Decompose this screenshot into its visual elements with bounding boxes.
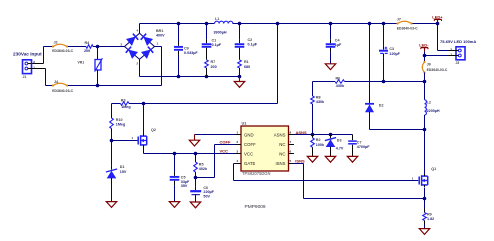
svg-text:400V: 400V (156, 34, 165, 38)
resistor R5 402k (194, 154, 208, 178)
resistor R2 100k (311, 135, 325, 157)
svg-text:R7: R7 (211, 60, 216, 64)
ground below R1 (234, 77, 244, 88)
svg-text:200: 200 (84, 49, 90, 53)
transistor Q2 (132, 104, 156, 154)
svg-text:1Meg: 1Meg (116, 123, 125, 127)
capacitor C3 120µF (379, 24, 401, 82)
resistor R8 430k (311, 82, 325, 135)
svg-text:J9: J9 (427, 62, 431, 66)
svg-text:R8: R8 (316, 95, 321, 99)
svg-text:D1: D1 (120, 165, 125, 169)
resistor R4 200 (84, 41, 93, 53)
ground below C5 (169, 202, 179, 208)
ground below C4 (325, 64, 335, 70)
ground below R9 (419, 229, 429, 235)
svg-text:PMP9009: PMP9009 (245, 204, 266, 210)
svg-text:2200µH: 2200µH (427, 109, 440, 113)
svg-text:J2: J2 (54, 40, 58, 44)
svg-text:ISNS: ISNS (275, 161, 285, 166)
svg-text:L1: L1 (215, 17, 219, 21)
wire ISNS net from pin 5 (294, 164, 425, 199)
svg-text:R2: R2 (316, 138, 321, 142)
wire bridge bottom riser and DC- rail (140, 59, 242, 78)
svg-text:3900µH: 3900µH (214, 30, 227, 34)
svg-text:C6: C6 (203, 186, 208, 190)
svg-text:35V: 35V (181, 184, 188, 188)
capacitor C7 4700pF (348, 135, 370, 157)
svg-text:LED-: LED- (419, 43, 429, 48)
wire ASNS net from pin 8 (294, 133, 353, 137)
label 75-65V LED 100mA (440, 39, 476, 44)
wire GATE net to Q1 gate (234, 164, 419, 181)
power symbol LED- (419, 43, 429, 52)
power symbol LED+ (432, 14, 443, 25)
net label VCC (220, 149, 229, 154)
svg-text:C5: C5 (181, 175, 186, 179)
svg-text:75-65V LED 100mA: 75-65V LED 100mA (440, 39, 476, 44)
wire VCC rail (144, 152, 242, 156)
svg-text:ED3640-03-C: ED3640-03-C (52, 49, 73, 53)
svg-text:ISNS: ISNS (295, 159, 305, 164)
svg-text:ASNS: ASNS (296, 130, 307, 135)
svg-text:50V: 50V (203, 195, 210, 199)
wire bottom input rail (46, 84, 162, 88)
diode D2 (365, 24, 384, 130)
ground below C6 (190, 202, 200, 208)
wire J9 to sense rail (424, 73, 426, 82)
net label ASNS (296, 130, 307, 135)
net label ISNS (295, 159, 305, 164)
svg-text:NC: NC (279, 151, 285, 156)
svg-text:430k: 430k (316, 100, 325, 104)
node Q2 base (110, 139, 138, 143)
connector J1 (230Vac input) (23, 60, 36, 79)
svg-text:COFF: COFF (220, 140, 231, 145)
svg-text:J7: J7 (397, 17, 401, 21)
svg-text:R1: R1 (244, 60, 249, 64)
capacitor C9 0.033µF (174, 24, 198, 77)
svg-text:4.7V: 4.7V (336, 147, 344, 151)
inductor L1 3900µH (214, 17, 233, 34)
svg-text:ASNS: ASNS (274, 132, 286, 137)
svg-text:100k: 100k (316, 143, 325, 147)
svg-text:33µF: 33µF (181, 180, 190, 184)
svg-text:15V: 15V (120, 170, 127, 174)
resistor R10 1Meg (110, 104, 126, 141)
label 230Vac Input (13, 52, 42, 57)
inductor L2 2200µH (425, 82, 440, 130)
svg-text:U1: U1 (242, 121, 248, 126)
svg-text:J1: J1 (23, 75, 27, 79)
node VR1 top junction (96, 45, 100, 49)
net label COFF (220, 140, 231, 145)
svg-text:230Vac Input: 230Vac Input (13, 52, 42, 57)
svg-text:0.1µF: 0.1µF (248, 42, 258, 46)
wire ASNS sense rail (313, 80, 427, 84)
label PMP9009 (245, 204, 266, 210)
wire AC right riser to bridge (155, 47, 162, 86)
svg-text:Q1: Q1 (431, 167, 436, 171)
resistor R3 1Meg (121, 99, 131, 109)
svg-text:J3: J3 (456, 61, 460, 65)
svg-text:COFF: COFF (244, 142, 256, 147)
svg-text:GATE: GATE (244, 161, 256, 166)
svg-text:R9: R9 (427, 212, 432, 216)
wire Q1 source to sense node (423, 188, 427, 201)
resistor R6 430k (335, 76, 345, 87)
svg-text:1Meg: 1Meg (121, 105, 130, 109)
wire J1 pin1 to bottom input rail (32, 69, 46, 86)
capacitor C6 220µF 50V (190, 178, 214, 203)
svg-text:4700pF: 4700pF (357, 145, 370, 149)
svg-text:L2: L2 (427, 100, 431, 104)
wire top DC+ rail (140, 22, 438, 26)
zener D1 15V (106, 141, 127, 202)
svg-text:402k: 402k (199, 167, 208, 171)
svg-text:120µF: 120µF (389, 52, 400, 56)
svg-text:C7: C7 (357, 140, 362, 144)
svg-text:VCC: VCC (244, 151, 253, 156)
wire D2 anode to switch node (370, 128, 427, 132)
svg-text:GND: GND (244, 132, 254, 137)
wire GND pin 1 to ground (195, 135, 236, 141)
varistor VR1 (78, 47, 103, 86)
svg-text:BR1: BR1 (156, 29, 163, 33)
svg-text:220µF: 220µF (203, 190, 214, 194)
svg-text:NC: NC (279, 142, 285, 147)
capacitor C4 1µF (326, 24, 342, 64)
svg-text:D3: D3 (337, 139, 342, 143)
transistor Q1 (412, 167, 436, 187)
op-amp U1 TPS92075 controller IC (236, 121, 295, 176)
capacitor C5 33µF 35V (170, 154, 190, 202)
resistor R1 680 (238, 60, 250, 77)
zener D3 4.7V (325, 135, 344, 157)
connector J3 (LED output) (448, 47, 465, 65)
wire bridge top riser (139, 24, 141, 34)
svg-text:200: 200 (211, 65, 217, 69)
svg-text:C1: C1 (212, 39, 217, 43)
wire switch node to Q1 drain (424, 130, 426, 175)
svg-text:ED3640-03-C: ED3640-03-C (427, 68, 448, 72)
ground below C7 (347, 156, 357, 162)
wire LED- node (423, 51, 448, 62)
svg-text:VCC: VCC (220, 149, 229, 154)
resistor R9 1.82 (423, 199, 434, 229)
svg-text:0.033µF: 0.033µF (184, 51, 198, 55)
wire top input rail (44, 46, 125, 48)
svg-text:Q2: Q2 (151, 128, 156, 132)
ground below D3 (325, 156, 335, 162)
wire LED+ to J3 pin 2 (438, 24, 449, 51)
ground below R2 (307, 156, 317, 162)
node COFF junction (194, 176, 198, 180)
fuse J4 (52, 80, 74, 93)
svg-text:TPS92075DGN: TPS92075DGN (242, 171, 270, 176)
capacitor C2 0.1µF (235, 24, 258, 60)
svg-text:0.1µF: 0.1µF (212, 43, 222, 47)
svg-text:680: 680 (244, 65, 250, 69)
svg-text:C9: C9 (184, 46, 189, 50)
ground at IC GND pin (189, 140, 199, 146)
svg-text:1µF: 1µF (335, 43, 342, 47)
wire J1 pin2 to top input rail (32, 47, 44, 64)
svg-text:430k: 430k (336, 84, 345, 88)
svg-text:C2: C2 (248, 38, 253, 42)
svg-text:D2: D2 (379, 103, 384, 107)
fuse J7 (396, 17, 418, 30)
svg-text:VR1: VR1 (78, 61, 85, 65)
fuse J2 (52, 40, 74, 53)
ground below D1 (106, 202, 116, 208)
wire COFF net to pin 2 (196, 145, 236, 178)
fuse J9 (422, 61, 448, 74)
svg-text:R10: R10 (116, 118, 123, 122)
svg-text:ED3640-03-C: ED3640-03-C (52, 89, 73, 93)
svg-text:C3: C3 (389, 47, 394, 51)
resistor R7 200 (205, 60, 217, 77)
wire VIN vertical to R3 rail (112, 24, 278, 106)
svg-text:LED+: LED+ (432, 14, 443, 19)
svg-text:ED3640-03-C: ED3640-03-C (397, 27, 418, 31)
svg-text:R6: R6 (336, 76, 341, 80)
bridge rectifier BR1 400V (121, 29, 166, 66)
svg-text:R5: R5 (199, 162, 204, 166)
svg-text:1.82: 1.82 (427, 217, 434, 221)
svg-text:R3: R3 (121, 99, 126, 103)
capacitor C1 0.1µF (202, 24, 222, 60)
